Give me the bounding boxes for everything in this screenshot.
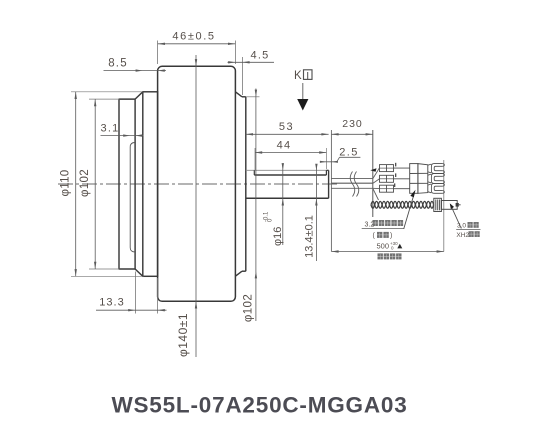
K direction marker	[294, 70, 312, 111]
wire marker ticks	[395, 163, 396, 187]
svg-text:WS55L-07A250C-MGGA03: WS55L-07A250C-MGGA03	[111, 393, 407, 418]
dim 230	[331, 133, 372, 135]
svg-text:13.3: 13.3	[99, 297, 124, 309]
connector housing (3-pole block)	[410, 164, 428, 194]
fork terminal 2	[428, 174, 445, 184]
wires bundle from shaft end	[331, 178, 373, 188]
svg-text:3.0: 3.0	[457, 223, 466, 230]
sensor plug body	[441, 201, 460, 210]
cable break symbol	[350, 172, 359, 197]
svg-text:XH2: XH2	[456, 232, 469, 239]
svg-text:53: 53	[279, 121, 294, 133]
dim φ16	[282, 163, 284, 245]
dim 46±0.5	[158, 41, 236, 65]
dim φ140±1	[195, 55, 197, 357]
extension line at shaft end	[330, 130, 332, 252]
dim 2.5	[320, 157, 361, 163]
dim 13.3	[96, 272, 167, 314]
svg-text:3.1: 3.1	[101, 123, 120, 135]
dim 4.5	[228, 57, 275, 95]
svg-text:): )	[390, 233, 392, 240]
dim 8.5	[104, 69, 167, 71]
svg-text:44: 44	[277, 140, 292, 152]
dim φ102 left	[89, 99, 120, 269]
dim 44	[255, 148, 326, 170]
svg-text:4.5: 4.5	[251, 50, 270, 62]
dim 3.1	[101, 134, 144, 136]
svg-text:-0.1: -0.1	[264, 211, 270, 222]
svg-text:8.5: 8.5	[108, 58, 128, 70]
small arrow on cable jacket end	[370, 168, 376, 172]
leader for pre-insulated terminal label	[404, 190, 416, 229]
hub slot	[130, 143, 135, 253]
svg-text:K: K	[294, 70, 302, 82]
wire fan-out to splices	[373, 168, 380, 200]
hub (left φ102 boss)	[119, 92, 143, 276]
fork terminal 3	[428, 184, 445, 194]
braided sensor cable	[371, 201, 434, 208]
extension line at cable jacket end	[372, 130, 374, 217]
shaft (φ16 hollow axle)	[246, 170, 329, 198]
motor body (φ140 cylinder)	[158, 66, 236, 301]
svg-text:46±0.5: 46±0.5	[172, 31, 215, 43]
dim φ110	[71, 92, 144, 276]
svg-text:φ102: φ102	[79, 169, 91, 197]
dim φ102 right	[246, 89, 260, 322]
svg-text:φ102: φ102	[243, 294, 255, 322]
svg-text:230: 230	[342, 118, 363, 130]
splice terminal 3	[380, 185, 410, 192]
flange (φ110 plate)	[143, 92, 158, 276]
dim 13.4±0.1	[315, 164, 317, 261]
label: 3.2 pre-insulated terminal (yellow)	[362, 220, 405, 240]
fork terminal 1	[428, 164, 445, 174]
centerline	[58, 183, 340, 185]
svg-text:(: (	[373, 233, 376, 240]
svg-text:0: 0	[391, 245, 394, 250]
svg-text:φ16: φ16	[272, 227, 284, 246]
label: 3.0 terminal / XH2 plug	[456, 222, 480, 239]
dim 53	[246, 133, 329, 135]
svg-text:φ110: φ110	[60, 170, 72, 197]
sensor connector ribbed collar	[434, 198, 442, 211]
splice terminal 1	[380, 165, 410, 172]
svg-text:500: 500	[377, 241, 390, 250]
svg-text:2.5: 2.5	[339, 147, 359, 159]
splice terminal 2	[380, 175, 410, 182]
extension line at terminal tips	[443, 160, 445, 252]
leader for plug label	[450, 203, 462, 228]
dim 500 wire length	[331, 250, 443, 252]
svg-text:13.4±0.1: 13.4±0.1	[304, 215, 316, 258]
right boss (φ102)	[235, 92, 245, 276]
shaft collar top edge	[326, 169, 328, 171]
svg-text:φ140±1: φ140±1	[176, 313, 190, 357]
